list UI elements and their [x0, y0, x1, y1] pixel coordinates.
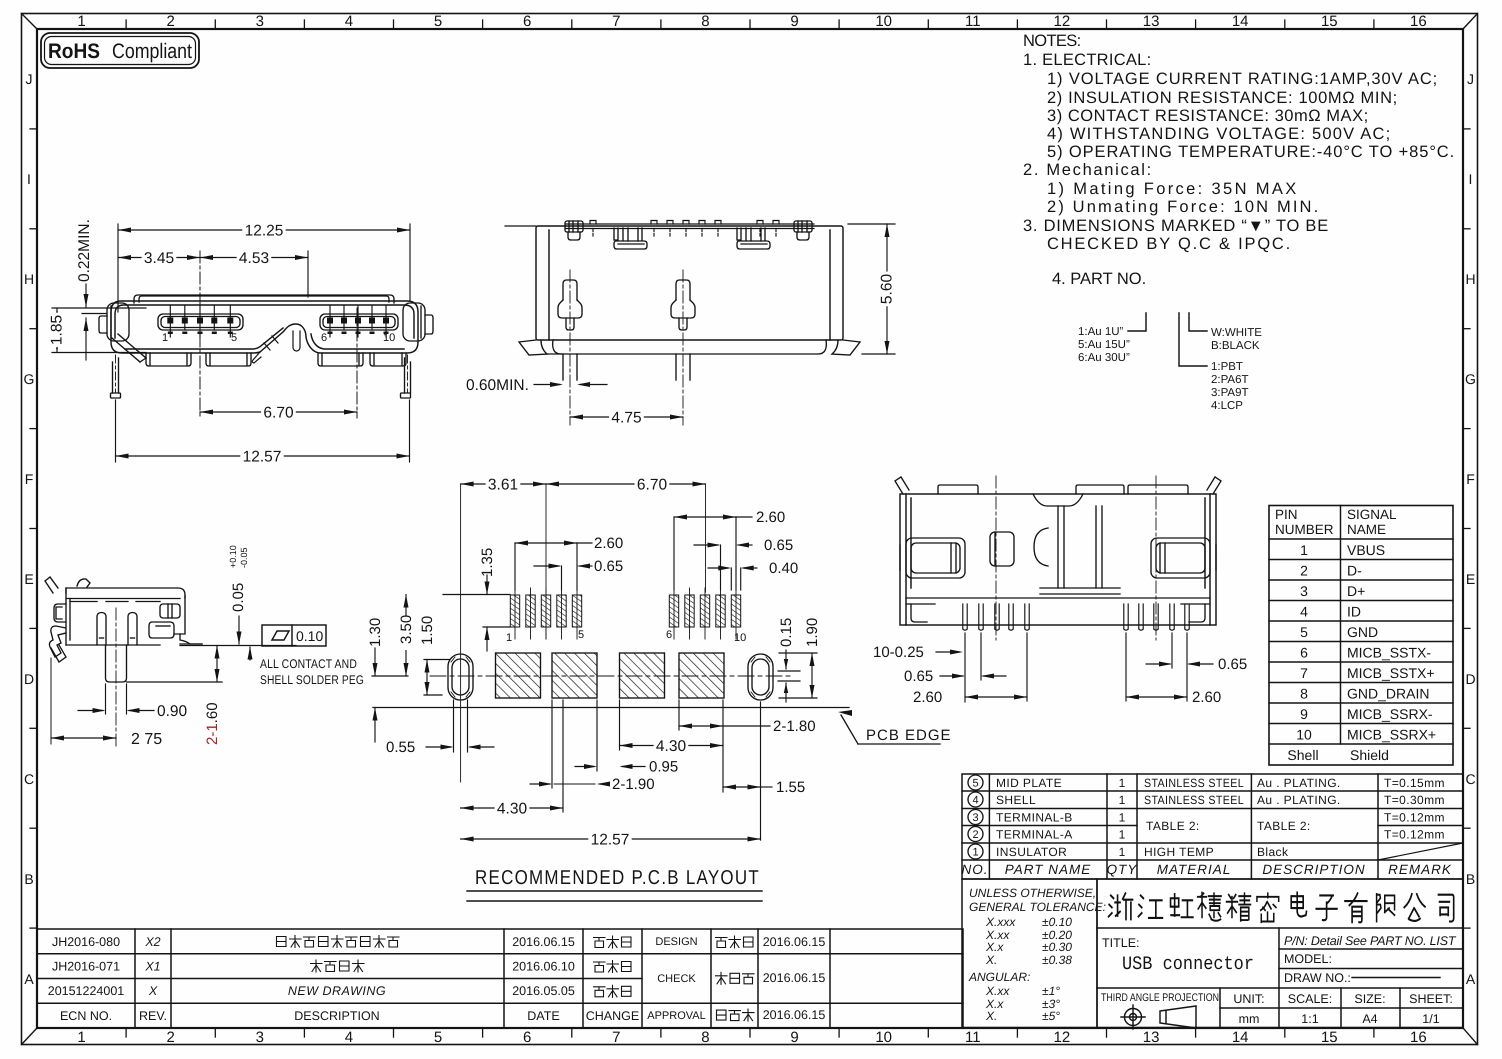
- svg-text:F: F: [25, 471, 34, 487]
- bottom view: pin centerlines: [569, 270, 571, 425]
- svg-text:B: B: [1466, 871, 1475, 887]
- svg-text:G: G: [24, 371, 35, 387]
- front view: left end cap: [99, 303, 129, 341]
- svg-text:MICB_SSTX-: MICB_SSTX-: [1347, 645, 1431, 661]
- svg-text:3: 3: [1300, 583, 1308, 599]
- svg-text:DRAW NO.:: DRAW NO.:: [1284, 971, 1351, 985]
- svg-text:1: 1: [506, 632, 512, 644]
- title block text: [1102, 934, 1457, 985]
- svg-text:DESCRIPTION: DESCRIPTION: [294, 1009, 379, 1023]
- svg-text:9: 9: [790, 1029, 798, 1046]
- bottom view: dimension 4.75: [570, 416, 683, 418]
- top grid zone numbers 1-16: [77, 13, 1426, 30]
- svg-text:±0.38: ±0.38: [1042, 953, 1072, 967]
- svg-text:5: 5: [434, 1029, 442, 1046]
- svg-text:ALL CONTACT AND: ALL CONTACT AND: [260, 657, 357, 671]
- company name (Chinese) 浙江虹穗精密电子有限公司: [1109, 893, 1454, 923]
- svg-text:JH2016-080: JH2016-080: [52, 935, 120, 949]
- svg-text:±0.30: ±0.30: [1042, 940, 1072, 954]
- svg-text:T=0.15mm: T=0.15mm: [1384, 776, 1445, 790]
- svg-text:10: 10: [875, 1029, 892, 1046]
- svg-text:5: 5: [434, 13, 442, 30]
- svg-text:JH2016-071: JH2016-071: [52, 960, 120, 974]
- svg-text:DESCRIPTION: DESCRIPTION: [1262, 862, 1365, 877]
- tolerance block frame: [962, 879, 1097, 1028]
- bottom view: dimension 5.60: [848, 224, 895, 354]
- pcb layout: right group dimension 2.60: [674, 517, 752, 590]
- svg-text:Au . PLATING.: Au . PLATING.: [1257, 776, 1341, 790]
- svg-text:6: 6: [523, 1029, 531, 1046]
- svg-text:GND: GND: [1347, 624, 1378, 640]
- svg-text:1: 1: [77, 13, 85, 30]
- pcb layout: right group dimension 0.65: [694, 545, 752, 590]
- svg-text:X.xx: X.xx: [985, 984, 1010, 998]
- svg-text:3: 3: [256, 13, 264, 30]
- svg-text:3.45: 3.45: [144, 250, 174, 267]
- svg-text:APPROVAL: APPROVAL: [647, 1010, 706, 1022]
- svg-text:-0.05: -0.05: [239, 547, 249, 568]
- svg-text:2016.06.15: 2016.06.15: [763, 935, 826, 949]
- svg-text:1.85: 1.85: [49, 315, 66, 345]
- svg-text:5:Au 15U”: 5:Au 15U”: [1078, 339, 1130, 351]
- svg-text:12: 12: [1054, 1029, 1071, 1046]
- svg-text:X.x: X.x: [985, 940, 1004, 954]
- svg-text:PIN: PIN: [1275, 507, 1298, 522]
- svg-text:DESIGN: DESIGN: [655, 936, 697, 948]
- pcb layout: dimension 12.57: [461, 838, 761, 840]
- svg-text:H: H: [1465, 271, 1475, 287]
- svg-text:0.95: 0.95: [649, 759, 678, 776]
- rear view: right latch block: [1151, 538, 1216, 578]
- rear view: top edge tabs: [938, 485, 1188, 506]
- pcb layout: small contact pads 6-10: [669, 595, 678, 627]
- svg-text:PART NAME: PART NAME: [1005, 862, 1092, 877]
- front view: left diagonal strut: [112, 334, 146, 362]
- svg-text:4: 4: [345, 1029, 353, 1046]
- rear view: center tongue: [1034, 506, 1120, 594]
- svg-text:11: 11: [965, 13, 981, 30]
- right grid ticks: [1463, 129, 1470, 928]
- svg-text:D: D: [1465, 671, 1475, 687]
- svg-text:3.50: 3.50: [398, 615, 415, 644]
- svg-text:±0.10: ±0.10: [1042, 915, 1072, 929]
- pcb layout: left mounting hole (stadium): [448, 654, 473, 700]
- rear view: centerlines: [995, 476, 997, 640]
- svg-text:X.: X.: [985, 1009, 997, 1023]
- svg-text:C: C: [1465, 771, 1475, 787]
- svg-text:THIRD ANGLE PROJECTION: THIRD ANGLE PROJECTION: [1101, 992, 1219, 1004]
- svg-text:0.15: 0.15: [778, 618, 795, 647]
- pcb layout: pad labels: [506, 629, 746, 644]
- svg-text:A4: A4: [1362, 1012, 1377, 1026]
- svg-text:2:PA6T: 2:PA6T: [1211, 374, 1249, 386]
- svg-text:0.22MIN.: 0.22MIN.: [76, 219, 93, 282]
- svg-text:3: 3: [256, 1029, 264, 1046]
- svg-text:1.90: 1.90: [804, 618, 821, 647]
- front view: dimension 12.25: [118, 224, 410, 312]
- svg-text:F: F: [1466, 471, 1475, 487]
- pcb layout: dimension 3.50: [405, 595, 407, 677]
- front view: dimension 6.70: [200, 411, 357, 413]
- pcb layout: dimension 0.65 (pins 4-5): [534, 566, 592, 590]
- svg-text:TABLE 2:: TABLE 2:: [1146, 819, 1200, 833]
- svg-text:0.40: 0.40: [769, 560, 798, 577]
- svg-text:2) INSULATION RESISTANCE: 100M: 2) INSULATION RESISTANCE: 100MΩ MIN;: [1047, 89, 1398, 107]
- svg-text:T=0.12mm: T=0.12mm: [1384, 811, 1445, 825]
- svg-text:6.70: 6.70: [637, 477, 668, 494]
- svg-text:0.65: 0.65: [594, 558, 623, 575]
- svg-text:2.60: 2.60: [1192, 689, 1221, 706]
- pcb layout: dimension 0.55: [426, 700, 494, 752]
- svg-text:2: 2: [167, 13, 175, 30]
- pcb layout: dimension 2-1.90: [530, 700, 608, 788]
- svg-text:X.xxx: X.xxx: [985, 915, 1016, 929]
- svg-text:Shield: Shield: [1350, 747, 1389, 763]
- svg-text:SIGNAL: SIGNAL: [1347, 507, 1397, 522]
- front view: fin slot: [252, 331, 300, 363]
- svg-text:2 75: 2 75: [131, 731, 162, 748]
- svg-text:1: 1: [1119, 811, 1126, 825]
- svg-text:9: 9: [790, 13, 798, 30]
- svg-text:VBUS: VBUS: [1347, 542, 1385, 558]
- svg-text:1: 1: [972, 847, 978, 859]
- svg-text:Shell: Shell: [1287, 747, 1318, 763]
- svg-text:10: 10: [383, 332, 395, 344]
- svg-text:GND_DRAIN: GND_DRAIN: [1347, 686, 1429, 702]
- svg-text:4.75: 4.75: [611, 410, 641, 427]
- svg-text:ECN NO.: ECN NO.: [60, 1009, 112, 1023]
- bottom view: left solder pin: [558, 280, 582, 330]
- rear view: bottom contact pins: [963, 604, 1189, 630]
- svg-text:CHECK: CHECK: [657, 973, 696, 985]
- side view: terminals inside: [97, 613, 137, 646]
- bottom view: legs below flange: [563, 354, 690, 380]
- svg-text:NOTES:: NOTES:: [1023, 32, 1082, 50]
- svg-text:4.53: 4.53: [239, 250, 269, 267]
- svg-text:SIZE:: SIZE:: [1354, 992, 1385, 1006]
- svg-text:1.50: 1.50: [419, 616, 436, 645]
- svg-text:H: H: [24, 271, 34, 287]
- svg-text:MICB_SSRX-: MICB_SSRX-: [1347, 706, 1433, 722]
- svg-text:10: 10: [734, 632, 746, 644]
- svg-text:B:BLACK: B:BLACK: [1211, 340, 1260, 352]
- svg-text:±1°: ±1°: [1042, 984, 1060, 998]
- svg-text:1: 1: [1119, 828, 1126, 842]
- svg-text:5) OPERATING TEMPERATURE:-40°C: 5) OPERATING TEMPERATURE:-40°C TO +85°C.: [1047, 143, 1455, 161]
- svg-text:1/1: 1/1: [1422, 1012, 1439, 1026]
- pcb layout: right group dimension 0.40: [708, 568, 757, 590]
- svg-text:NEW DRAWING: NEW DRAWING: [288, 984, 386, 998]
- svg-text:J: J: [26, 71, 33, 87]
- part no legend: [1078, 326, 1262, 412]
- rear view: dimension 0.65 left: [940, 633, 1006, 680]
- svg-text:2.60: 2.60: [594, 535, 623, 552]
- parts list text: [996, 776, 1445, 859]
- pcb layout: dimension 0.15 / 1.90 right: [778, 650, 800, 702]
- pcb layout: dimension 1.30: [372, 648, 408, 742]
- svg-text:1: 1: [1119, 793, 1126, 807]
- pcb layout: dimension 0.95: [575, 700, 645, 771]
- svg-text:SHELL SOLDER PEG: SHELL SOLDER PEG: [260, 673, 364, 687]
- front view: pin row left (pins 1-5): [158, 314, 243, 330]
- bottom view: right retention clip: [794, 221, 812, 240]
- svg-text:7: 7: [612, 1029, 620, 1046]
- side view: left latch extension line: [50, 658, 52, 744]
- front view: dimension 3.45: [118, 257, 200, 259]
- bottom view: right solder pin: [671, 280, 695, 330]
- pin table text: [1275, 507, 1397, 537]
- svg-text:DATE: DATE: [527, 1009, 559, 1023]
- front view: right end cap: [403, 303, 433, 341]
- svg-text:2. Mechanical:: 2. Mechanical:: [1023, 161, 1152, 179]
- svg-text:3.61: 3.61: [488, 477, 518, 494]
- revision table text: [48, 935, 826, 1023]
- pcb layout: large solder pads: [496, 653, 541, 698]
- svg-text:STAINLESS STEEL: STAINLESS STEEL: [1144, 776, 1244, 790]
- svg-text:2-1.60: 2-1.60: [204, 702, 221, 745]
- svg-text:1:1: 1:1: [1301, 1012, 1318, 1026]
- bottom view: dimension 0.60MIN.: [534, 384, 607, 386]
- left grid ticks: [30, 129, 37, 928]
- svg-text:MID PLATE: MID PLATE: [996, 776, 1062, 790]
- svg-text:I: I: [1469, 171, 1473, 187]
- front view: dimension 1.85: [52, 308, 146, 353]
- svg-text:REMARK: REMARK: [1388, 862, 1452, 877]
- rear view: dimension 0.65 right: [1146, 633, 1213, 668]
- pcb layout: pad centerline: [430, 675, 792, 677]
- svg-text:MICB_SSTX+: MICB_SSTX+: [1347, 665, 1435, 681]
- svg-text:0.05: 0.05: [230, 583, 247, 612]
- svg-text:W:WHITE: W:WHITE: [1211, 327, 1262, 339]
- svg-text:0.55: 0.55: [386, 739, 415, 756]
- svg-text:CHECKED BY Q.C & IPQC.: CHECKED BY Q.C & IPQC.: [1047, 235, 1291, 253]
- svg-text:4. PART NO.: 4. PART NO.: [1052, 270, 1147, 288]
- svg-text:1. ELECTRICAL:: 1. ELECTRICAL:: [1023, 51, 1152, 69]
- rear view: dimension 10-0.25: [936, 633, 965, 702]
- bottom view: body outline: [536, 226, 843, 340]
- svg-text:2016.05.05: 2016.05.05: [512, 984, 575, 998]
- svg-text:REV.: REV.: [139, 1009, 167, 1023]
- front view: pin row right (pins 6-10): [320, 314, 398, 330]
- svg-text:1) VOLTAGE CURRENT RATING:1AMP: 1) VOLTAGE CURRENT RATING:1AMP,30V AC;: [1047, 70, 1438, 88]
- rear view: body outline: [900, 494, 1216, 625]
- svg-text:8: 8: [701, 13, 709, 30]
- svg-text:5: 5: [231, 332, 237, 344]
- svg-text:RECOMMENDED P.C.B LAYOUT: RECOMMENDED P.C.B LAYOUT: [475, 867, 760, 889]
- top grid ticks: [126, 20, 1374, 29]
- pcb layout: dimension 6.70: [546, 483, 706, 485]
- svg-text:16: 16: [1410, 13, 1427, 30]
- svg-text:3: 3: [972, 812, 978, 824]
- svg-text:P/N: Detail See PART NO. LIST: P/N: Detail See PART NO. LIST: [1284, 934, 1457, 948]
- svg-text:2.60: 2.60: [913, 689, 942, 706]
- rear view: corner horns: [895, 477, 1221, 494]
- svg-text:1.35: 1.35: [479, 548, 496, 577]
- svg-text:RoHS: RoHS: [48, 40, 100, 63]
- svg-text:2016.06.15: 2016.06.15: [763, 971, 826, 985]
- svg-text:USB connector: USB connector: [1122, 953, 1254, 975]
- svg-text:J: J: [1467, 71, 1474, 87]
- svg-text:0.10: 0.10: [296, 628, 323, 644]
- svg-text:G: G: [1465, 371, 1476, 387]
- svg-text:NUMBER: NUMBER: [1275, 522, 1334, 537]
- unit scale size sheet: [1233, 992, 1453, 1026]
- svg-text:Black: Black: [1257, 845, 1289, 859]
- svg-text:MATERIAL: MATERIAL: [1157, 862, 1232, 877]
- svg-text:9: 9: [1300, 706, 1308, 722]
- svg-text:1.30: 1.30: [367, 618, 384, 647]
- svg-text:NAME: NAME: [1347, 522, 1386, 537]
- svg-text:SCALE:: SCALE:: [1288, 992, 1332, 1006]
- svg-text:13: 13: [1143, 13, 1160, 30]
- pcb layout: dimension 1.50: [424, 660, 450, 696]
- svg-text:E: E: [24, 571, 33, 587]
- side view: solder plane line: [180, 645, 296, 647]
- svg-text:8: 8: [1300, 686, 1308, 702]
- svg-text:B: B: [24, 871, 33, 887]
- svg-text:ANGULAR:: ANGULAR:: [968, 970, 1030, 984]
- svg-text:TERMINAL-B: TERMINAL-B: [996, 811, 1073, 825]
- bottom view: left retention clip: [565, 221, 583, 240]
- svg-text:1: 1: [162, 332, 168, 344]
- bottom view: right hold-down tab: [737, 228, 770, 249]
- svg-text:0.60MIN.: 0.60MIN.: [466, 377, 529, 394]
- svg-text:GENERAL TOLERANCE:: GENERAL TOLERANCE:: [969, 900, 1106, 914]
- svg-text:X: X: [148, 984, 158, 998]
- svg-text:QTY: QTY: [1107, 862, 1138, 877]
- svg-text:2: 2: [972, 829, 978, 841]
- svg-text:E: E: [1466, 571, 1475, 587]
- svg-text:5: 5: [1300, 624, 1308, 640]
- svg-text:+0.10: +0.10: [228, 545, 238, 568]
- parts list circled numbers: [968, 775, 983, 859]
- bottom view: left hold-down tab: [614, 228, 647, 249]
- svg-text:C: C: [24, 771, 34, 787]
- svg-text:12.25: 12.25: [245, 223, 284, 240]
- pcb layout: dimension 4.30 upper: [620, 700, 724, 750]
- svg-text:SHEET:: SHEET:: [1409, 992, 1453, 1006]
- svg-text:6: 6: [1300, 645, 1308, 661]
- svg-text:0.65: 0.65: [904, 668, 933, 685]
- side view: dimension 0.90: [78, 684, 154, 714]
- front view: pin number labels: [162, 332, 395, 344]
- front view: shell outer body: [111, 301, 418, 353]
- insulator remark diagonal: [1378, 843, 1463, 860]
- svg-text:UNIT:: UNIT:: [1233, 992, 1264, 1006]
- svg-text:11: 11: [965, 1029, 981, 1046]
- svg-text:2016.06.10: 2016.06.10: [512, 960, 575, 974]
- svg-text:15: 15: [1321, 1029, 1338, 1046]
- svg-text:12: 12: [1054, 13, 1071, 30]
- bottom grid zone numbers 1-16: [77, 1029, 1426, 1046]
- svg-text:TABLE 2:: TABLE 2:: [1257, 819, 1311, 833]
- notes text block: [1023, 32, 1455, 288]
- front view: legs: [111, 358, 411, 398]
- svg-text:1: 1: [1119, 845, 1126, 859]
- svg-text:4: 4: [1300, 604, 1308, 620]
- svg-text:STAINLESS STEEL: STAINLESS STEEL: [1144, 793, 1244, 807]
- svg-text:TITLE:: TITLE:: [1102, 936, 1140, 950]
- svg-text:PCB EDGE: PCB EDGE: [866, 727, 952, 744]
- left grid zone letters A-J: [24, 71, 35, 987]
- svg-text:HIGH TEMP: HIGH TEMP: [1144, 845, 1214, 859]
- pcb layout: small contact pads 1-5: [510, 595, 519, 627]
- part no legend lines: [1128, 313, 1207, 366]
- svg-text:5.60: 5.60: [879, 274, 896, 305]
- svg-text:3) CONTACT RESISTANCE: 30mΩ MA: 3) CONTACT RESISTANCE: 30mΩ MAX;: [1047, 107, 1369, 125]
- svg-text:SHELL: SHELL: [996, 793, 1036, 807]
- svg-text:20151224001: 20151224001: [48, 984, 125, 998]
- svg-text:TERMINAL-A: TERMINAL-A: [996, 828, 1073, 842]
- rear view: small center-left tab: [990, 532, 1014, 566]
- svg-text:16: 16: [1410, 1029, 1427, 1046]
- svg-text:1) Mating Force: 35N MAX: 1) Mating Force: 35N MAX: [1047, 180, 1297, 198]
- svg-text:X.: X.: [985, 953, 997, 967]
- pcb layout: dimension 2.60 (pins 1-5): [515, 543, 592, 590]
- svg-text:X2: X2: [144, 935, 160, 949]
- svg-text:I: I: [27, 171, 31, 187]
- title block frame: [1097, 879, 1463, 1028]
- svg-text:1: 1: [1300, 542, 1308, 558]
- pcb layout: extension centerlines from dims: [460, 484, 462, 782]
- svg-text:1:Au 1U”: 1:Au 1U”: [1078, 326, 1124, 338]
- svg-text:14: 14: [1232, 1029, 1249, 1046]
- svg-text:0.90: 0.90: [157, 703, 188, 720]
- svg-text:8: 8: [701, 1029, 709, 1046]
- bottom view: flange and feet: [519, 340, 860, 355]
- svg-text:2.60: 2.60: [756, 509, 785, 526]
- side view: dimension 2.75 (red): [51, 737, 116, 739]
- side view: note all contact and shell solder peg: [260, 657, 364, 687]
- pcb layout: pcb edge line: [373, 707, 849, 709]
- svg-text:12.57: 12.57: [243, 449, 282, 466]
- pcb layout: dimension 4.30 lower: [461, 700, 563, 812]
- svg-text:X1: X1: [144, 960, 160, 974]
- pcb layout: dimension 1.35: [443, 575, 510, 651]
- rear view: dimension 2.60 left: [965, 633, 1027, 701]
- svg-text:6:Au 30U”: 6:Au 30U”: [1078, 352, 1130, 364]
- pin table frame: [1269, 506, 1453, 766]
- rear view: dimension 2.60 right: [1126, 633, 1187, 701]
- right grid zone letters A-J: [1465, 71, 1476, 987]
- svg-text:6: 6: [523, 13, 531, 30]
- front view: dimension 4.53: [200, 251, 308, 297]
- svg-text:±5°: ±5°: [1042, 1009, 1060, 1023]
- RoHS Compliant badge: [41, 33, 199, 68]
- svg-text:INSULATOR: INSULATOR: [996, 845, 1067, 859]
- svg-text:5: 5: [578, 629, 584, 641]
- svg-text:A: A: [1466, 971, 1476, 987]
- svg-text:4:LCP: 4:LCP: [1211, 400, 1243, 412]
- front view: shell lip: [134, 295, 394, 303]
- pcb layout: pcb edge label: [838, 710, 852, 716]
- pcb layout: dimension 2-1.80: [679, 700, 770, 792]
- svg-text:7: 7: [612, 13, 620, 30]
- svg-text:ID: ID: [1347, 604, 1361, 620]
- rear view: base region: [906, 598, 1210, 622]
- svg-text:15: 15: [1321, 13, 1338, 30]
- svg-text:2-1.80: 2-1.80: [773, 718, 816, 735]
- bottom grid ticks: [126, 1028, 1374, 1037]
- parts list header row: [961, 862, 1451, 877]
- svg-text:5: 5: [972, 778, 978, 790]
- side view: body outline: [45, 577, 202, 662]
- svg-text:3. DIMENSIONS MARKED “▼” TO BE: 3. DIMENSIONS MARKED “▼” TO BE: [1023, 217, 1329, 235]
- small chinese texts in revision table: [277, 936, 755, 1022]
- tolerance block text: [968, 886, 1106, 1023]
- svg-text:13: 13: [1143, 1029, 1160, 1046]
- pcb layout: right mounting hole (stadium): [748, 654, 773, 700]
